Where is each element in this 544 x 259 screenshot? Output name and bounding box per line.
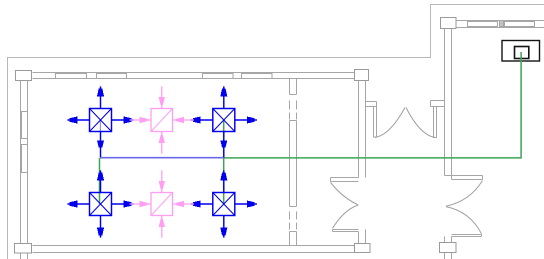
door D1 left leaf: [374, 107, 377, 138]
door D2 leaf bottom: [333, 230, 359, 232]
door D3 leaf bottom: [452, 235, 482, 237]
wire blue B1 center drop: [99, 120, 101, 132]
wire blue run: [100, 157, 224, 159]
column C3: [15, 244, 32, 254]
diffuser B2: [191, 86, 257, 157]
door D2 leaf top: [331, 178, 359, 182]
corridor right wall: [445, 29, 452, 180]
column C2: [355, 70, 369, 81]
corridor left wall lower: [359, 230, 366, 244]
diffuser B4: [191, 170, 257, 237]
door D2 swing arcs: [331, 183, 359, 229]
door D1 right jamb: [431, 101, 445, 107]
partition wall dashed segments: [290, 101, 297, 120]
return P1: [130, 86, 194, 153]
diffuser B1: [67, 86, 133, 157]
partition wall solid segments: [290, 79, 297, 95]
window W2: [203, 73, 234, 79]
return P2: [130, 170, 194, 237]
wall bottom (left building): [33, 246, 355, 253]
wall top (left building): [33, 73, 355, 79]
column C5: [440, 243, 457, 253]
column C6: [441, 18, 457, 29]
window W1: [56, 73, 87, 79]
wall stub below-left: [21, 254, 28, 259]
column C1: [16, 71, 32, 81]
wall top (right building): [457, 21, 544, 28]
panel PNL outer: [502, 41, 540, 62]
corridor right wall lower: [445, 237, 452, 243]
window W4: [468, 21, 498, 27]
door D1 left jamb: [366, 102, 377, 107]
corridor left wall: [359, 81, 366, 178]
column C4: [355, 244, 371, 253]
door D3 swing arcs: [446, 181, 483, 234]
wall stub below-right: [445, 253, 452, 259]
door D1 swing arcs: [375, 108, 435, 138]
wall left (left building): [21, 81, 28, 244]
window W3: [21, 112, 28, 139]
diffuser B3: [67, 170, 133, 237]
panel PNL inner: [515, 47, 529, 59]
door D3 leaf top: [445, 176, 483, 180]
door D1 right leaf: [434, 107, 437, 138]
wire green B2-B4 drop: [223, 120, 225, 204]
wire green panel run: [224, 52, 521, 158]
wire green B1-B3 drop: [99, 158, 101, 204]
